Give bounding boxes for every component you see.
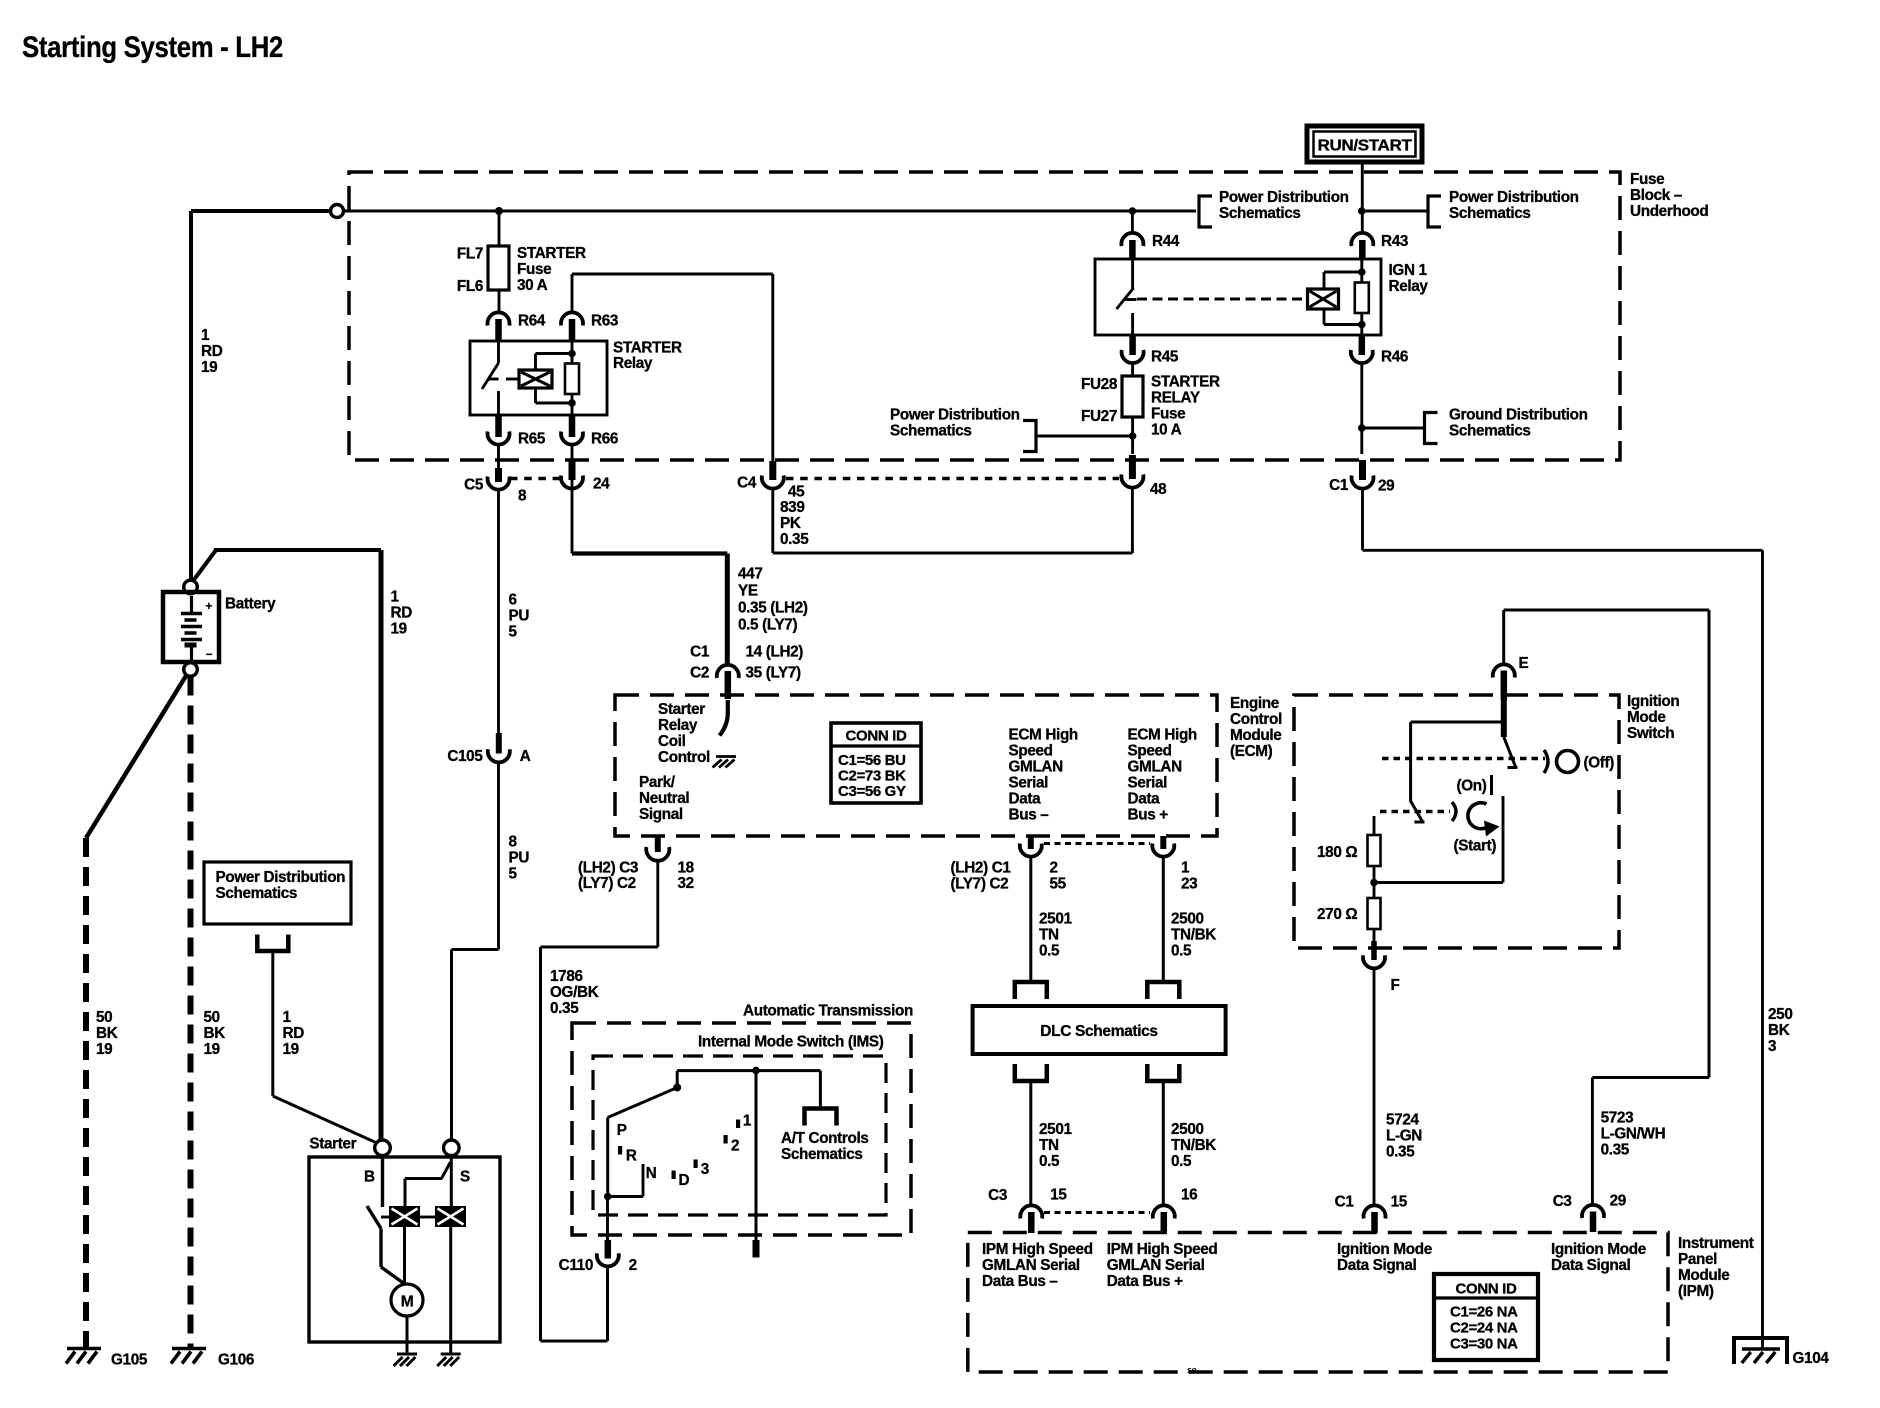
svg-text:Starter: Starter [309, 1136, 356, 1153]
svg-text:F: F [1391, 977, 1400, 994]
svg-text:Module: Module [1230, 727, 1281, 744]
svg-text:19: 19 [204, 1041, 220, 1058]
svg-text:Fuse: Fuse [1151, 406, 1185, 423]
svg-text:GMLAN Serial: GMLAN Serial [982, 1257, 1080, 1274]
svg-text:15: 15 [1050, 1187, 1067, 1204]
svg-text:D: D [679, 1172, 690, 1189]
svg-text:PK: PK [780, 515, 801, 532]
svg-text:C105: C105 [447, 748, 483, 765]
svg-text:0.5 (LY7): 0.5 (LY7) [738, 617, 797, 634]
svg-text:C3=56 GY: C3=56 GY [838, 783, 906, 800]
svg-text:Starting System - LH2: Starting System - LH2 [22, 31, 283, 64]
svg-text:Speed: Speed [1128, 743, 1172, 760]
svg-text:Panel: Panel [1678, 1251, 1717, 1268]
svg-text:STARTER: STARTER [517, 245, 586, 262]
svg-text:Relay: Relay [658, 717, 698, 734]
svg-text:6: 6 [509, 592, 517, 609]
svg-text:0.35: 0.35 [1386, 1144, 1415, 1161]
svg-text:C2=73 BK: C2=73 BK [838, 768, 906, 785]
svg-text:Control: Control [658, 749, 710, 766]
svg-text:P: P [617, 1122, 627, 1139]
svg-text:C3: C3 [988, 1187, 1007, 1204]
svg-text:PU: PU [509, 608, 530, 625]
svg-text:DLC Schematics: DLC Schematics [1040, 1023, 1157, 1040]
svg-text:YE: YE [738, 583, 758, 600]
svg-text:3: 3 [1768, 1038, 1776, 1055]
svg-text:30 A: 30 A [517, 277, 548, 294]
svg-text:GMLAN Serial: GMLAN Serial [1107, 1257, 1205, 1274]
svg-text:1: 1 [391, 589, 400, 606]
svg-text:8: 8 [518, 488, 527, 505]
svg-text:GMLAN: GMLAN [1128, 759, 1183, 776]
svg-text:FU27: FU27 [1081, 408, 1117, 425]
svg-text:RELAY: RELAY [1151, 390, 1200, 407]
svg-text:Mode: Mode [1627, 709, 1666, 726]
svg-text:Schematics: Schematics [890, 423, 972, 440]
svg-text:29: 29 [1610, 1193, 1626, 1210]
svg-text:0.5: 0.5 [1171, 943, 1192, 960]
svg-text:Module: Module [1678, 1267, 1729, 1284]
svg-text:A/T Controls: A/T Controls [781, 1130, 869, 1147]
svg-text:(ECM): (ECM) [1230, 743, 1273, 760]
svg-text:R64: R64 [518, 313, 546, 330]
svg-text:E: E [1519, 655, 1529, 672]
svg-text:se: se [1187, 1365, 1197, 1375]
svg-text:BK: BK [96, 1025, 118, 1042]
svg-text:Starter: Starter [658, 701, 705, 718]
svg-text:Control: Control [1230, 711, 1282, 728]
svg-text:250: 250 [1768, 1006, 1792, 1023]
svg-text:Coil: Coil [658, 733, 686, 750]
svg-text:1: 1 [1181, 860, 1190, 877]
svg-text:RUN/START: RUN/START [1318, 138, 1413, 155]
svg-text:Fuse: Fuse [1630, 171, 1664, 188]
svg-text:Ignition: Ignition [1627, 693, 1679, 710]
svg-text:TN: TN [1039, 927, 1059, 944]
svg-text:Schematics: Schematics [1219, 205, 1301, 222]
svg-text:R45: R45 [1151, 349, 1179, 366]
svg-text:G106: G106 [218, 1352, 254, 1369]
svg-text:180 Ω: 180 Ω [1317, 844, 1357, 861]
svg-text:Data Signal: Data Signal [1337, 1257, 1417, 1274]
svg-text:(LY7) C2: (LY7) C2 [578, 875, 636, 892]
svg-text:45: 45 [788, 484, 805, 501]
svg-text:Ignition Mode: Ignition Mode [1551, 1241, 1646, 1258]
svg-text:TN/BK: TN/BK [1171, 927, 1216, 944]
svg-text:Schematics: Schematics [1449, 205, 1531, 222]
svg-text:C1=56 BU: C1=56 BU [838, 752, 906, 769]
svg-text:L-GN: L-GN [1386, 1128, 1422, 1145]
svg-text:Power Distribution: Power Distribution [216, 869, 346, 886]
svg-text:RD: RD [201, 343, 223, 360]
svg-text:B: B [364, 1169, 375, 1186]
svg-text:RD: RD [391, 605, 413, 622]
svg-text:FL7: FL7 [457, 246, 483, 263]
svg-text:R65: R65 [518, 431, 546, 448]
svg-text:Serial: Serial [1128, 775, 1168, 792]
svg-text:C4: C4 [737, 475, 757, 492]
svg-text:50: 50 [204, 1009, 220, 1026]
svg-text:R46: R46 [1381, 349, 1408, 366]
svg-text:Data: Data [1128, 791, 1161, 808]
svg-text:Data: Data [1009, 791, 1042, 808]
svg-text:(On): (On) [1457, 778, 1487, 795]
svg-text:270 Ω: 270 Ω [1317, 906, 1357, 923]
svg-text:48: 48 [1150, 481, 1167, 498]
svg-text:Speed: Speed [1009, 743, 1053, 760]
svg-text:FL6: FL6 [457, 278, 483, 295]
svg-text:Battery: Battery [225, 596, 276, 613]
svg-text:Block –: Block – [1630, 187, 1683, 204]
svg-text:PU: PU [509, 850, 530, 867]
svg-text:STARTER: STARTER [1151, 374, 1220, 391]
svg-text:BK: BK [1768, 1022, 1790, 1039]
svg-text:R44: R44 [1152, 233, 1180, 250]
svg-text:A: A [520, 748, 531, 765]
svg-text:C2: C2 [690, 665, 709, 682]
svg-text:Underhood: Underhood [1630, 203, 1708, 220]
svg-text:OG/BK: OG/BK [550, 984, 599, 1001]
svg-text:447: 447 [738, 566, 762, 583]
svg-text:5: 5 [509, 866, 518, 883]
svg-text:2: 2 [1050, 860, 1058, 877]
svg-text:2501: 2501 [1039, 1121, 1072, 1138]
svg-text:3: 3 [701, 1161, 709, 1178]
svg-text:C1: C1 [1329, 477, 1349, 494]
svg-text:Ground Distribution: Ground Distribution [1449, 407, 1588, 424]
svg-text:C1: C1 [1335, 1194, 1355, 1211]
svg-text:GMLAN: GMLAN [1009, 759, 1064, 776]
svg-text:Internal Mode Switch (IMS): Internal Mode Switch (IMS) [698, 1034, 884, 1051]
svg-text:Relay: Relay [1389, 278, 1429, 295]
svg-text:IGN 1: IGN 1 [1389, 262, 1428, 279]
svg-text:15: 15 [1391, 1194, 1408, 1211]
svg-text:35 (LY7): 35 (LY7) [746, 665, 802, 682]
svg-text:STARTER: STARTER [613, 340, 682, 357]
svg-text:TN/BK: TN/BK [1171, 1137, 1216, 1154]
svg-text:Power Distribution: Power Distribution [1219, 189, 1349, 206]
svg-text:BK: BK [204, 1025, 226, 1042]
svg-text:19: 19 [96, 1041, 112, 1058]
svg-text:2: 2 [629, 1257, 637, 1274]
svg-text:N: N [646, 1165, 657, 1182]
svg-text:C3=30 NA: C3=30 NA [1450, 1336, 1518, 1353]
svg-text:RD: RD [283, 1025, 305, 1042]
svg-text:R: R [626, 1148, 637, 1165]
svg-text:1: 1 [201, 327, 210, 344]
svg-text:G105: G105 [111, 1352, 148, 1369]
svg-text:+: + [206, 601, 213, 613]
svg-text:Engine: Engine [1230, 695, 1279, 712]
svg-text:R66: R66 [591, 431, 618, 448]
svg-text:(LH2) C1: (LH2) C1 [951, 860, 1012, 877]
svg-text:16: 16 [1181, 1187, 1197, 1204]
svg-text:19: 19 [201, 359, 217, 376]
svg-text:Bus –: Bus – [1009, 807, 1050, 824]
svg-text:Automatic Transmission: Automatic Transmission [743, 1003, 913, 1020]
svg-text:5724: 5724 [1386, 1112, 1419, 1129]
svg-text:19: 19 [283, 1041, 299, 1058]
svg-text:50: 50 [96, 1009, 112, 1026]
svg-text:Ignition Mode: Ignition Mode [1337, 1241, 1432, 1258]
svg-text:C1=26 NA: C1=26 NA [1450, 1304, 1518, 1321]
svg-text:Schematics: Schematics [1449, 423, 1531, 440]
svg-text:C110: C110 [559, 1257, 593, 1274]
svg-text:–: – [206, 649, 213, 661]
svg-text:29: 29 [1378, 478, 1394, 495]
svg-text:CONN ID: CONN ID [846, 728, 907, 745]
svg-text:0.5: 0.5 [1039, 1153, 1060, 1170]
svg-text:23: 23 [1181, 876, 1197, 893]
svg-text:L-GN/WH: L-GN/WH [1601, 1126, 1666, 1143]
svg-text:5: 5 [509, 624, 518, 641]
svg-text:ECM High: ECM High [1009, 727, 1078, 744]
svg-text:Instrument: Instrument [1678, 1235, 1754, 1252]
svg-text:Data Signal: Data Signal [1551, 1257, 1631, 1274]
svg-text:Park/: Park/ [639, 774, 676, 791]
svg-text:839: 839 [780, 499, 804, 516]
svg-text:24: 24 [593, 476, 610, 493]
svg-text:2500: 2500 [1171, 1121, 1204, 1138]
svg-text:Switch: Switch [1627, 725, 1674, 742]
svg-text:2: 2 [731, 1138, 739, 1155]
svg-text:1: 1 [283, 1009, 292, 1026]
svg-text:10 A: 10 A [1151, 422, 1182, 439]
svg-text:(LY7) C2: (LY7) C2 [951, 876, 1009, 893]
svg-text:0.5: 0.5 [1171, 1153, 1192, 1170]
svg-text:0.35 (LH2): 0.35 (LH2) [738, 600, 808, 617]
svg-text:0.5: 0.5 [1039, 943, 1060, 960]
svg-text:Neutral: Neutral [639, 790, 689, 807]
svg-text:TN: TN [1039, 1137, 1059, 1154]
svg-text:0.35: 0.35 [780, 531, 809, 548]
svg-text:8: 8 [509, 834, 518, 851]
svg-text:C2=24 NA: C2=24 NA [1450, 1320, 1518, 1337]
svg-text:Schematics: Schematics [216, 885, 298, 902]
svg-text:Signal: Signal [639, 806, 683, 823]
svg-text:Data Bus +: Data Bus + [1107, 1273, 1183, 1290]
svg-text:Power Distribution: Power Distribution [890, 407, 1020, 424]
svg-text:FU28: FU28 [1081, 376, 1118, 393]
svg-text:(Off): (Off) [1584, 755, 1615, 772]
svg-text:Schematics: Schematics [781, 1146, 863, 1163]
svg-text:1: 1 [743, 1113, 752, 1130]
svg-text:18: 18 [678, 860, 695, 877]
svg-text:C5: C5 [464, 477, 484, 494]
svg-text:32: 32 [678, 875, 694, 892]
svg-text:5723: 5723 [1601, 1110, 1634, 1127]
svg-text:IPM High Speed: IPM High Speed [982, 1241, 1093, 1258]
svg-text:G104: G104 [1793, 1350, 1830, 1367]
svg-text:C1: C1 [690, 644, 710, 661]
svg-text:0.35: 0.35 [550, 1000, 579, 1017]
svg-text:(LH2) C3: (LH2) C3 [578, 860, 638, 877]
svg-text:CONN ID: CONN ID [1456, 1281, 1517, 1298]
svg-text:C3: C3 [1553, 1193, 1572, 1210]
svg-text:(Start): (Start) [1454, 838, 1497, 855]
svg-text:S: S [460, 1169, 470, 1186]
svg-text:R63: R63 [591, 313, 618, 330]
svg-text:2501: 2501 [1039, 911, 1072, 928]
svg-text:IPM High Speed: IPM High Speed [1107, 1241, 1218, 1258]
svg-text:0.35: 0.35 [1601, 1142, 1630, 1159]
svg-text:1786: 1786 [550, 968, 583, 985]
svg-text:14 (LH2): 14 (LH2) [746, 644, 804, 661]
svg-text:R43: R43 [1381, 233, 1408, 250]
svg-text:2500: 2500 [1171, 911, 1204, 928]
svg-text:ECM High: ECM High [1128, 727, 1197, 744]
svg-text:Relay: Relay [613, 355, 653, 372]
svg-text:M: M [401, 1294, 414, 1311]
svg-text:55: 55 [1050, 876, 1067, 893]
svg-text:Fuse: Fuse [517, 261, 551, 278]
svg-text:Power Distribution: Power Distribution [1449, 189, 1579, 206]
svg-text:19: 19 [391, 621, 407, 638]
svg-text:(IPM): (IPM) [1678, 1283, 1714, 1300]
svg-text:Data Bus –: Data Bus – [982, 1273, 1058, 1290]
svg-text:Serial: Serial [1009, 775, 1049, 792]
svg-text:Bus +: Bus + [1128, 807, 1169, 824]
